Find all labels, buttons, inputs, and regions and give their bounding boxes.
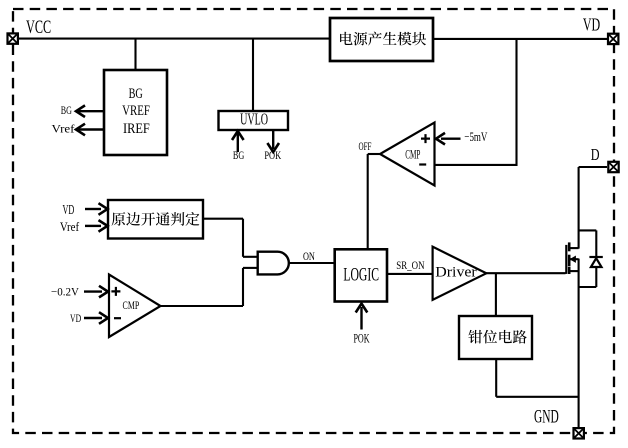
body diode branch top <box>579 230 597 257</box>
svg-text:Vref: Vref <box>60 220 80 234</box>
label GND <box>534 407 559 428</box>
svg-text:ON: ON <box>303 251 315 263</box>
wire BG output with arrow <box>76 105 104 117</box>
svg-text:VD: VD <box>70 311 81 325</box>
label -5mV <box>464 129 487 144</box>
svg-text:−5mV: −5mV <box>464 129 487 144</box>
driver buffer <box>433 247 487 300</box>
label VCC <box>26 17 51 38</box>
wire -0.2V input arrow <box>84 286 108 298</box>
svg-text:BG: BG <box>233 149 245 162</box>
svg-text:VD: VD <box>583 14 600 34</box>
wire SR_ON LOGIC to Driver <box>387 273 433 275</box>
svg-text:VREF: VREF <box>122 103 150 119</box>
label -0.2V <box>51 285 79 299</box>
svg-text:LOGIC: LOGIC <box>343 265 379 285</box>
block reference generator BG/VREF/IREF <box>104 70 167 155</box>
wire D pin to drain <box>579 166 607 168</box>
svg-text:BG: BG <box>61 103 72 117</box>
svg-text:BG: BG <box>129 86 143 102</box>
wire clamp to source node <box>496 359 579 397</box>
AND gate <box>258 252 289 275</box>
wire VD input arrow to CMP2 <box>84 312 108 324</box>
wire branch to UVLO block <box>252 39 254 111</box>
label BG under UVLO <box>233 149 245 162</box>
svg-text:IREF: IREF <box>123 121 150 137</box>
label D <box>591 145 600 164</box>
transistor M1 (SR MOSFET) <box>566 242 578 274</box>
wire BG input arrow into UVLO <box>232 131 244 152</box>
svg-text:CMP: CMP <box>123 298 140 312</box>
svg-text:POK: POK <box>353 331 369 345</box>
svg-text:GND: GND <box>534 407 559 428</box>
wire Vref output with arrow <box>76 124 104 136</box>
block LOGIC <box>335 249 387 301</box>
block UVLO <box>219 110 289 130</box>
wire VD input arrow <box>85 203 108 215</box>
wire branch to clamp circuit <box>495 273 497 317</box>
wire drain trunk <box>578 167 580 249</box>
label Vref output <box>52 121 75 135</box>
wire source trunk to GND pin <box>578 259 580 428</box>
comparator CMP2 (ON) <box>109 275 161 338</box>
label VD into CMP2 <box>70 311 81 325</box>
pin VD <box>608 34 618 44</box>
wire VCC rail from VCC pin to power module <box>19 38 330 40</box>
svg-text:CMP: CMP <box>405 147 420 162</box>
label Vref input <box>60 220 80 234</box>
label VD input <box>63 202 75 217</box>
body diode D1 <box>589 257 602 267</box>
label SR_ON <box>396 259 425 272</box>
label BG output <box>61 103 72 117</box>
label ON <box>303 251 315 263</box>
label POK under LOGIC <box>353 331 369 345</box>
wire turn-on output to AND upper input <box>203 219 258 257</box>
body diode branch bottom <box>579 267 597 287</box>
svg-text:−0.2V: −0.2V <box>51 285 79 299</box>
wire AND output (ON) to LOGIC <box>289 262 335 264</box>
pin VCC <box>8 33 18 43</box>
wire CMP2 output to AND lower input <box>159 268 258 306</box>
wire power module output to VD pin <box>433 38 608 40</box>
wire Vref input arrow <box>85 220 108 232</box>
svg-text:OFF: OFF <box>359 141 372 153</box>
wire branch to BG/VREF/IREF block <box>134 39 136 70</box>
svg-text:POK: POK <box>264 149 281 162</box>
wire -5mV into CMP1 plus input <box>436 133 461 145</box>
pin GND <box>574 428 584 438</box>
wire Driver output to MOSFET gate <box>485 272 566 274</box>
wire POK output arrow from UVLO <box>267 130 279 152</box>
wire POK arrow into LOGIC bottom <box>356 304 368 330</box>
svg-text:VCC: VCC <box>26 17 51 38</box>
block clamp circuit (钳位电路) <box>459 316 532 359</box>
svg-text:D: D <box>591 145 600 164</box>
wire VD sense branch down <box>515 39 517 166</box>
label OFF <box>359 141 372 153</box>
svg-text:Vref: Vref <box>52 121 75 135</box>
svg-text:SR_ON: SR_ON <box>396 259 425 272</box>
wire VD sense to CMP1 inverting input <box>434 164 518 166</box>
comparator CMP1 (OFF) <box>380 123 435 186</box>
pin D <box>608 162 618 172</box>
block primary-side turn-on detection (原边开通判定) <box>108 200 203 239</box>
svg-text:Driver: Driver <box>435 265 476 281</box>
block power-generation module (电源产生模块) <box>330 18 433 61</box>
label POK under UVLO <box>264 149 281 162</box>
label VD <box>583 14 600 34</box>
svg-text:UVLO: UVLO <box>240 110 268 129</box>
wire CMP1 output to LOGIC top <box>368 154 382 250</box>
svg-text:VD: VD <box>63 202 75 217</box>
